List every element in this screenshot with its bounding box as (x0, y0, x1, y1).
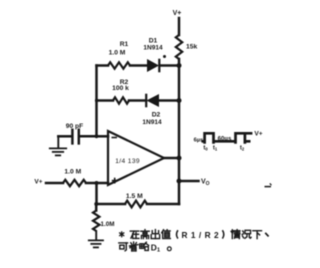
svg-text:R1/R2: R1/R2 (182, 230, 223, 240)
svg-text:1N914: 1N914 (143, 44, 163, 51)
svg-text:100 k: 100 k (112, 85, 129, 92)
svg-text:90 pF: 90 pF (66, 123, 83, 130)
svg-text:t1: t1 (213, 145, 218, 151)
svg-text:V+: V+ (254, 131, 262, 138)
svg-text:D2: D2 (152, 112, 161, 119)
svg-text:V+: V+ (173, 10, 182, 17)
svg-text:1.0M: 1.0M (101, 221, 115, 228)
svg-text:t0: t0 (203, 145, 208, 151)
svg-text:1/4 139: 1/4 139 (115, 158, 140, 165)
svg-text:1.5 M: 1.5 M (126, 193, 143, 200)
svg-text:1N914: 1N914 (142, 119, 162, 126)
svg-text:6µs: 6µs (194, 138, 204, 144)
svg-text:t2: t2 (240, 145, 245, 151)
svg-text:15k: 15k (186, 44, 198, 51)
svg-text:60µs: 60µs (218, 135, 232, 142)
svg-text:1.0 M: 1.0 M (109, 50, 126, 57)
svg-text:1.0 M: 1.0 M (64, 169, 81, 176)
svg-text:R1: R1 (120, 41, 129, 48)
svg-text:V+: V+ (34, 178, 42, 185)
